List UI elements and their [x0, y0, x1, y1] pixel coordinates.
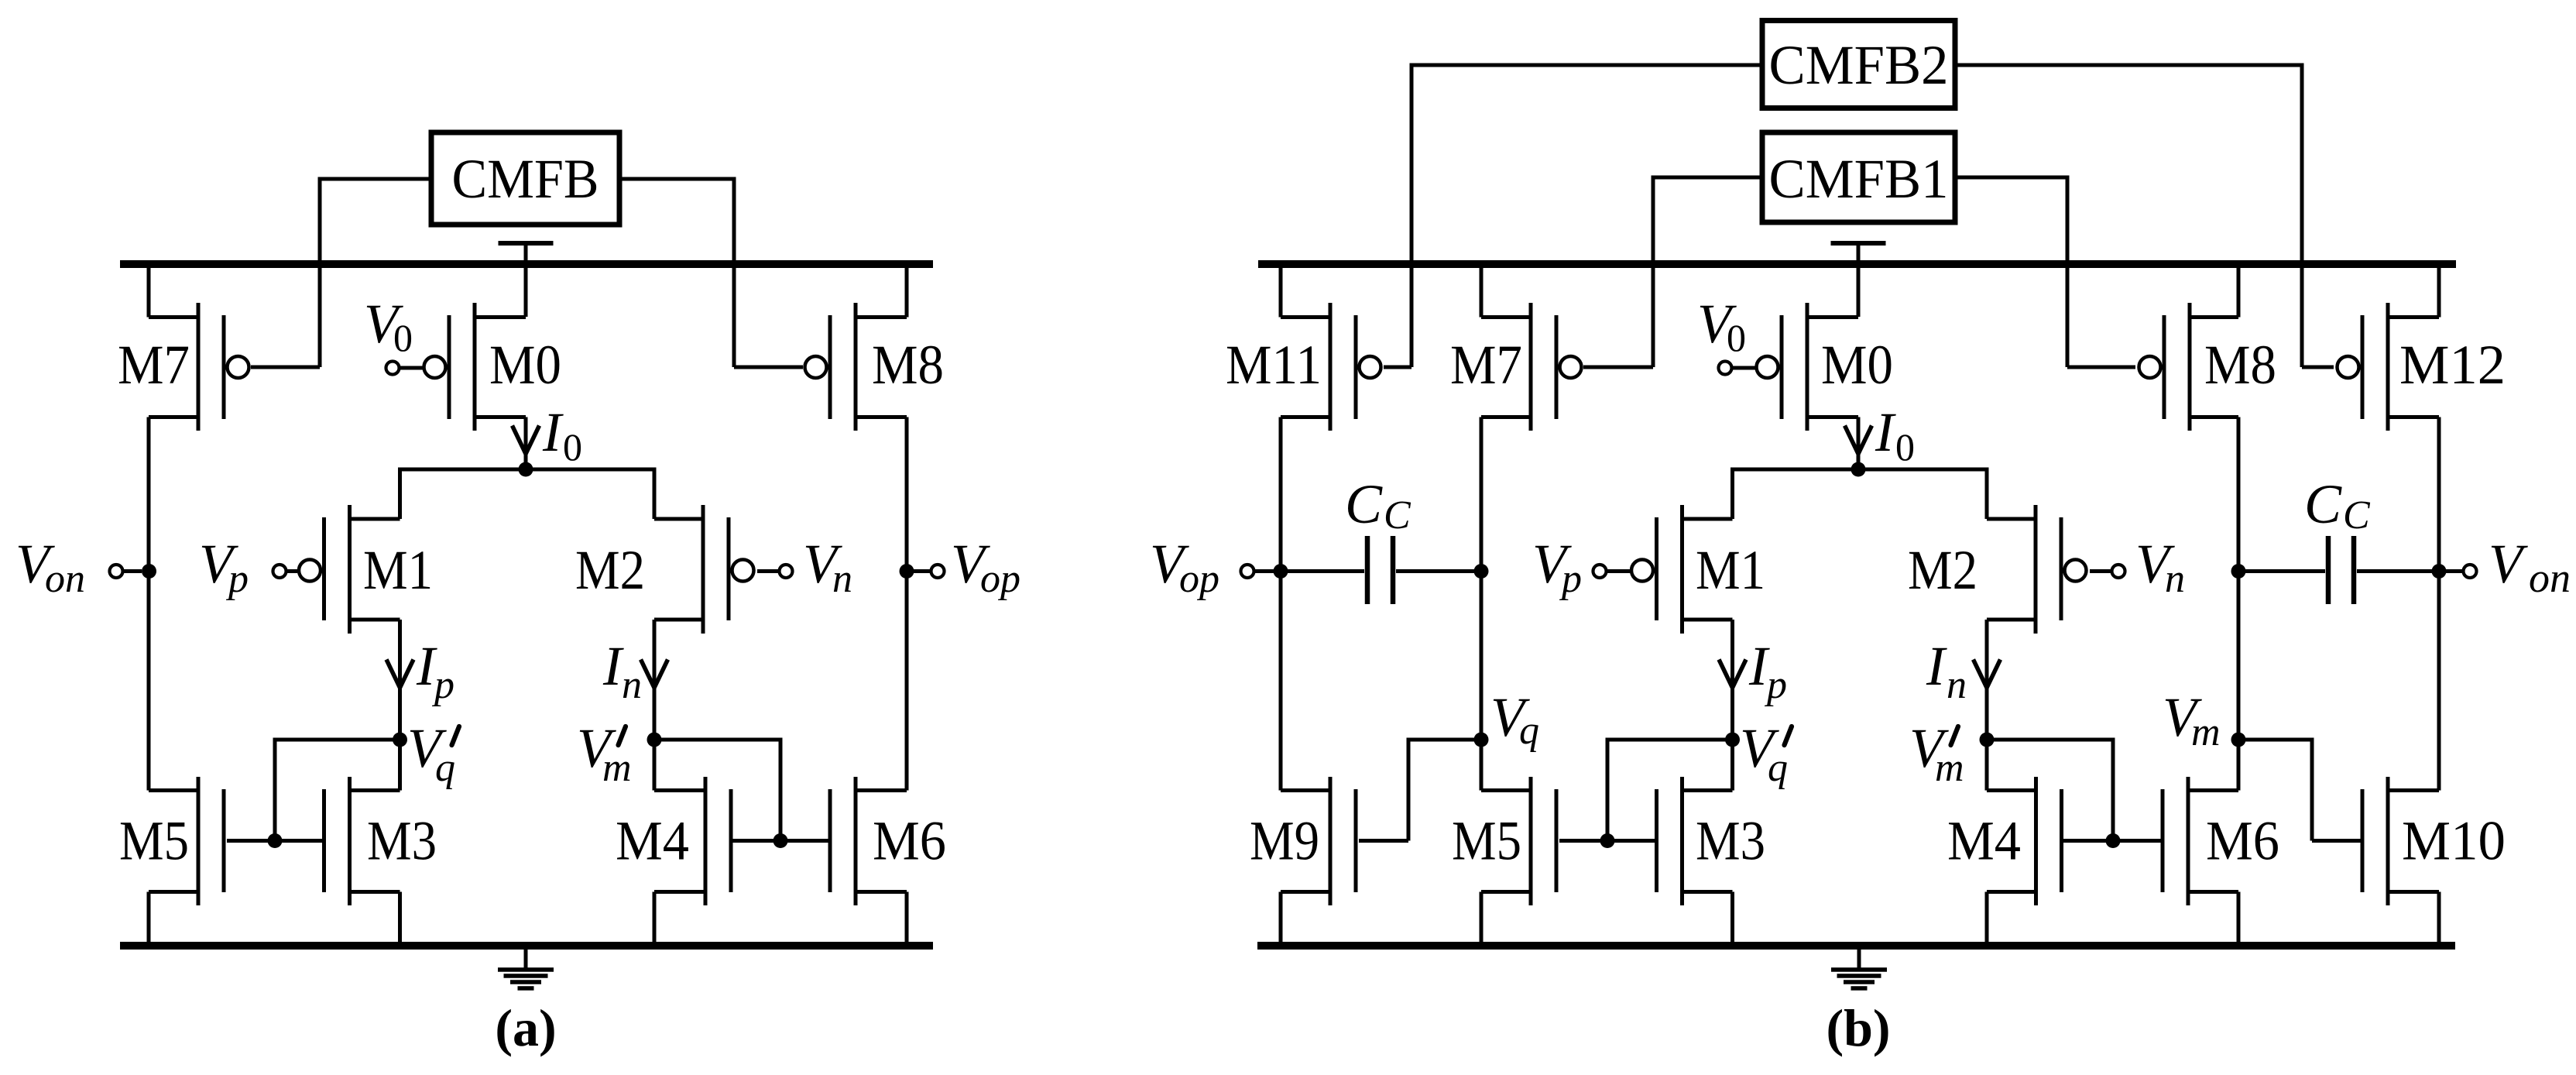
transistor M5b	[1452, 777, 1556, 905]
label I0 (b)	[1875, 401, 1915, 469]
wire M12 source to rail	[2437, 264, 2441, 318]
label Von (a)	[15, 533, 85, 601]
wire M3 source to ground	[398, 892, 402, 946]
wire M7b source to rail	[1480, 264, 1484, 318]
svg-text:M1: M1	[363, 539, 433, 601]
svg-text:n: n	[2165, 557, 2185, 601]
svg-text:on: on	[2529, 555, 2571, 601]
wire Vm' to M4 M6 gates (b)	[1984, 738, 2163, 841]
wire M4b source to ground	[1985, 892, 1989, 946]
arrow Ip (a)	[386, 660, 413, 689]
wire tail current (a)	[400, 468, 655, 520]
wire M2 drain to Vm' node	[653, 620, 657, 791]
label Vm' (b)	[1909, 717, 1964, 790]
wire M8 source to rail	[905, 264, 909, 318]
svg-text:CMFB: CMFB	[452, 148, 599, 210]
ground symbol (b)	[1831, 948, 1887, 988]
wire M10 source to ground	[2437, 892, 2441, 946]
CMFB1 block	[1762, 132, 1955, 222]
label In (a)	[602, 635, 642, 707]
svg-text:p: p	[1559, 557, 1582, 601]
wire CMFB2 left to M11 gate	[1384, 64, 1762, 368]
svg-text:0: 0	[563, 425, 582, 469]
label Vq' (b)	[1740, 717, 1792, 790]
transistor M8	[805, 303, 945, 431]
svg-text:M8: M8	[872, 334, 944, 396]
transistor M4b	[1947, 777, 2062, 905]
transistor M10	[2362, 777, 2506, 905]
node V0 terminal (b)	[1719, 362, 1758, 375]
transistor M5	[119, 777, 224, 905]
svg-text:M7: M7	[1450, 334, 1522, 396]
transistor M1b	[1631, 505, 1765, 634]
wire M8b drain to Vm node	[2237, 417, 2241, 791]
label CC right	[2304, 473, 2371, 537]
svg-text:op: op	[980, 557, 1020, 601]
arrow In (a)	[641, 660, 668, 689]
label Vn (b)	[2135, 533, 2185, 601]
node Vn terminal (b)	[2090, 565, 2125, 578]
capacitor CC right	[2242, 536, 2435, 604]
wire CMFB2 right to M12 gate	[1955, 64, 2334, 368]
node I0 (a)	[519, 462, 533, 477]
arrow Ip (b)	[1719, 660, 1746, 689]
wire M5b source to ground	[1480, 892, 1484, 946]
svg-text:m: m	[2191, 710, 2221, 754]
svg-text:p: p	[1764, 663, 1787, 707]
wire M7 source to rail	[147, 264, 151, 318]
svg-text:M9: M9	[1250, 810, 1319, 872]
svg-text:M6: M6	[2206, 810, 2279, 872]
svg-text:0: 0	[1895, 425, 1915, 469]
power rail (a)	[120, 260, 933, 268]
wire tail current (b)	[1733, 468, 1988, 520]
svg-text:CMFB2: CMFB2	[1769, 34, 1949, 96]
caption (a)	[495, 998, 556, 1057]
transistor M3b	[1657, 777, 1766, 905]
label Ip (b)	[1748, 635, 1787, 707]
transistor M9	[1250, 777, 1356, 905]
node V0 terminal (a)	[386, 362, 426, 375]
wire CMFB1 left to M7 gate (b)	[1583, 176, 1762, 368]
wire M0b drain to I0 node	[1857, 417, 1861, 470]
label I0 (a)	[542, 401, 582, 469]
svg-text:0: 0	[393, 316, 413, 359]
node Vp terminal (a)	[273, 565, 298, 578]
svg-text:M10: M10	[2402, 810, 2506, 872]
transistor M1	[299, 505, 433, 634]
label Vn (a)	[803, 533, 852, 601]
label V0 (b)	[1697, 293, 1746, 359]
ground rail (b)	[1257, 942, 2455, 950]
label Vm	[2163, 686, 2221, 754]
node Vop (a)	[900, 564, 945, 579]
svg-text:I: I	[1926, 635, 1947, 697]
label Vq' (a)	[407, 717, 459, 790]
svg-text:C: C	[2343, 493, 2371, 537]
wire M3b source to ground	[1730, 892, 1734, 946]
arrow In (b)	[1974, 660, 2001, 689]
svg-text:(b): (b)	[1826, 998, 1890, 1057]
svg-text:M11: M11	[1226, 334, 1322, 396]
node Vp terminal (b)	[1593, 565, 1631, 578]
transistor M6b	[2163, 777, 2279, 905]
svg-text:C: C	[1345, 473, 1383, 535]
node Vn terminal (a)	[757, 565, 793, 578]
label Ip (a)	[416, 635, 454, 707]
node Vq	[1474, 733, 1489, 747]
CMFB2 block	[1762, 21, 1955, 108]
label Vp (b)	[1532, 533, 1582, 601]
svg-text:on: on	[45, 557, 85, 601]
wire Vq to M9 gate	[1359, 738, 1484, 841]
wire Vq' to M5 M3 gates	[227, 738, 402, 841]
wire M8b source to rail	[2237, 264, 2241, 318]
label Vm' (a)	[577, 717, 632, 790]
label Vq	[1490, 686, 1539, 753]
wire M6b source to ground	[2237, 892, 2241, 946]
ground rail (a)	[120, 942, 933, 950]
transistor M4	[616, 777, 731, 905]
svg-text:I: I	[1875, 401, 1896, 463]
svg-text:m: m	[1935, 746, 1964, 790]
wire M5 source to ground	[147, 892, 151, 946]
label Von (b)	[2489, 533, 2571, 601]
svg-text:M3: M3	[367, 810, 437, 872]
svg-text:M4: M4	[1947, 810, 2021, 872]
svg-text:I: I	[542, 401, 564, 463]
node I0 (b)	[1851, 462, 1866, 477]
svg-text:C: C	[1384, 493, 1411, 537]
label In (b)	[1926, 635, 1967, 707]
svg-text:M6: M6	[873, 810, 946, 872]
node Von (a)	[110, 564, 157, 579]
transistor M2	[575, 505, 754, 634]
CMFB supply tap	[499, 243, 554, 317]
wire M11 source to rail	[1279, 264, 1283, 318]
node Vm	[2231, 733, 2246, 747]
wire CMFB right to M8 gate	[619, 177, 803, 368]
wire M12 drain to M10 drain	[2437, 417, 2441, 791]
wire CMFB1 right to M8 gate (b)	[1955, 176, 2135, 368]
svg-text:M0: M0	[489, 334, 561, 396]
node Von junction (b)	[2432, 564, 2477, 579]
transistor M7b	[1450, 303, 1582, 431]
svg-text:V: V	[2489, 533, 2528, 595]
svg-text:M2: M2	[1908, 539, 1977, 601]
svg-text:p: p	[431, 663, 454, 707]
svg-text:n: n	[1947, 663, 1967, 707]
label V0 (a)	[364, 293, 413, 359]
transistor M0	[424, 303, 562, 431]
svg-text:M12: M12	[2399, 334, 2506, 396]
svg-text:n: n	[622, 663, 642, 707]
node Vm' (b)	[1980, 733, 1995, 747]
transistor M6	[830, 777, 946, 905]
node Vm' (a)	[647, 733, 662, 747]
svg-text:M7: M7	[118, 334, 190, 396]
arrow I0 (a)	[513, 426, 540, 455]
svg-text:M3: M3	[1696, 810, 1765, 872]
svg-text:M1: M1	[1696, 539, 1765, 601]
svg-text:q: q	[435, 746, 455, 790]
transistor M7	[118, 303, 249, 431]
caption (b)	[1826, 998, 1890, 1057]
label Vp (a)	[199, 533, 249, 601]
label Vop (a)	[951, 533, 1020, 601]
wire M4 source to ground	[653, 892, 657, 946]
wire M1 drain to Vq' node	[398, 620, 402, 791]
svg-text:0: 0	[1727, 316, 1746, 359]
node Vq' (a)	[393, 733, 407, 747]
wire M9 source to ground	[1279, 892, 1283, 946]
svg-text:p: p	[225, 557, 249, 601]
svg-text:q: q	[1768, 746, 1788, 790]
power rail (b)	[1258, 260, 2456, 268]
svg-text:(a): (a)	[495, 998, 556, 1057]
junction M4 M6 gates	[773, 833, 788, 848]
wire CMFB left to M7 gate	[251, 177, 431, 368]
node Vq' (b)	[1725, 733, 1740, 747]
wire Vq' to M5 M3 gates (b)	[1559, 738, 1734, 841]
label CC left	[1345, 473, 1411, 537]
svg-text:m: m	[602, 746, 632, 790]
arrow I0 (b)	[1845, 426, 1872, 455]
svg-text:op: op	[1179, 557, 1219, 601]
wire M6 source to ground	[905, 892, 909, 946]
CMFB block	[431, 132, 619, 225]
wire M0 drain to I0 node	[524, 417, 528, 470]
ground symbol (a)	[498, 948, 554, 988]
wire Vm to M10 gate	[2236, 738, 2362, 841]
label Vop (b)	[1150, 533, 1219, 601]
svg-text:C: C	[2304, 473, 2342, 535]
junction M4 M6 gates (b)	[2106, 833, 2121, 848]
svg-text:M5: M5	[119, 810, 189, 872]
svg-text:n: n	[832, 557, 852, 601]
transistor M0b	[1757, 303, 1894, 431]
wire Vm' to M4 M6 gates	[652, 738, 830, 841]
transistor M8b	[2139, 303, 2277, 431]
svg-text:M5: M5	[1452, 810, 1521, 872]
transistor M2b	[1908, 505, 2087, 634]
transistor M12	[2338, 303, 2506, 431]
svg-text:I: I	[602, 635, 624, 697]
svg-text:M0: M0	[1821, 334, 1893, 396]
node CC-M8 junction (b)	[2231, 564, 2246, 579]
wire M1b drain to Vq' node	[1730, 620, 1734, 791]
svg-text:CMFB1: CMFB1	[1769, 148, 1949, 210]
svg-text:M4: M4	[616, 810, 689, 872]
junction M5 M3 gates	[268, 833, 283, 848]
transistor M3	[324, 777, 437, 905]
svg-text:M2: M2	[575, 539, 645, 601]
wire M8 drain to Vop node	[905, 417, 909, 791]
transistor M11	[1226, 303, 1381, 431]
CMFB1 supply tap	[1831, 243, 1886, 317]
junction M5 M3 gates (b)	[1600, 833, 1615, 848]
wire M11 drain to M9 drain	[1279, 417, 1283, 791]
svg-text:q: q	[1519, 709, 1539, 753]
wire M7 drain to Von node	[147, 417, 151, 791]
svg-text:M8: M8	[2204, 334, 2276, 396]
node Vop junction (b)	[1241, 564, 1288, 579]
node CC-M7 junction (b)	[1474, 564, 1489, 579]
wire M7b drain to Vq node	[1480, 417, 1484, 791]
capacitor CC left	[1285, 536, 1477, 604]
wire M2b drain to Vm' node	[1985, 620, 1989, 791]
